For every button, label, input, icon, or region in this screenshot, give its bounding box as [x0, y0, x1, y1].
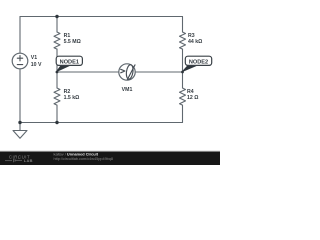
- svg-text:12 Ω: 12 Ω: [187, 95, 198, 101]
- svg-text:kaltav / Unnamed Circuit: kaltav / Unnamed Circuit: [54, 152, 99, 157]
- svg-text:http://circuitlab.com/c4w45pp4: http://circuitlab.com/c4w45pp49bq8: [54, 157, 114, 161]
- svg-text:V1: V1: [31, 55, 37, 61]
- svg-text:NODE1: NODE1: [60, 59, 79, 65]
- svg-text:LAB: LAB: [24, 158, 33, 163]
- svg-text:NODE2: NODE2: [189, 59, 208, 65]
- svg-text:44 kΩ: 44 kΩ: [188, 39, 202, 45]
- svg-text:1.5 kΩ: 1.5 kΩ: [64, 95, 80, 101]
- svg-text:5.5 MΩ: 5.5 MΩ: [64, 39, 81, 45]
- svg-text:10 V: 10 V: [31, 62, 42, 68]
- svg-text:VM1: VM1: [122, 87, 133, 93]
